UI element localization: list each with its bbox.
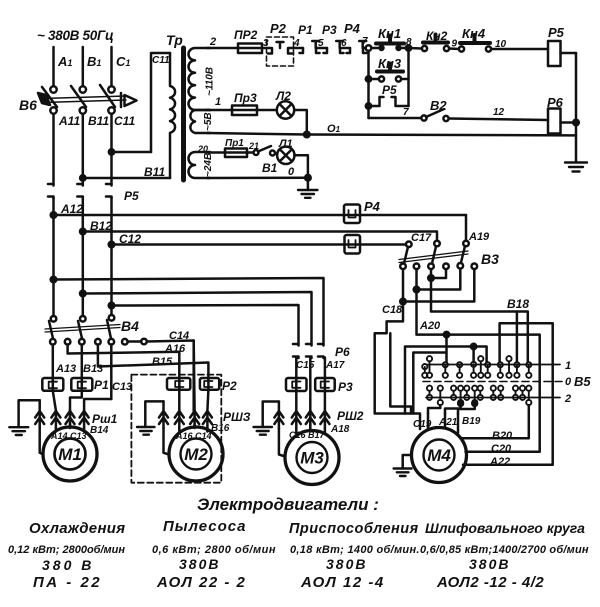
fuse Pr1 [225, 149, 247, 158]
plug connector RSh3 [159, 401, 212, 428]
svg-text:Электродвигатели :: Электродвигатели : [197, 495, 379, 514]
wire C11 to C12 [110, 198, 113, 316]
svg-text:Рш1: Рш1 [92, 412, 118, 426]
svg-text:Р3: Р3 [338, 380, 353, 394]
wire M3 phases to plug [296, 391, 325, 411]
ground M1 [19, 400, 40, 427]
motor M1 [43, 427, 97, 481]
switch B6 blade 3 [100, 85, 115, 107]
svg-text:В3: В3 [481, 251, 499, 267]
node A11 [50, 107, 56, 113]
ground right [565, 163, 587, 172]
wire plug to motor M3 [279, 428, 285, 457]
push button Kn2 [422, 46, 427, 51]
svg-text:АОЛ 22 - 2: АОЛ 22 - 2 [156, 574, 246, 591]
ground M3 [263, 402, 279, 428]
node C1 [110, 47, 113, 86]
wire M1 phase A to plug [53, 391, 56, 411]
transformer Tr secondary 24V winding [189, 152, 210, 178]
plug connector RSh2 [274, 402, 329, 429]
node C on second bus [109, 303, 115, 309]
svg-text:380В: 380В [326, 556, 367, 572]
relay coil P5 [548, 41, 561, 66]
svg-text:Р5: Р5 [382, 83, 397, 97]
bus A12 [54, 214, 467, 217]
wire C14 [128, 341, 194, 412]
svg-text:4: 4 [293, 38, 300, 49]
wire lamp L2 to O1 [294, 110, 307, 135]
svg-text:1: 1 [215, 96, 221, 108]
node 8 [406, 45, 411, 50]
wire M1 phase C to plug [84, 399, 111, 411]
switch B4 blades [49, 321, 53, 339]
contactor P3 contact B [315, 378, 335, 391]
svg-text:12: 12 [493, 107, 505, 118]
svg-text:Кн2: Кн2 [426, 29, 448, 43]
svg-text:Кн3: Кн3 [378, 56, 402, 71]
contactor P5 main contact A [48, 184, 54, 198]
wire M4 B20 [462, 405, 529, 438]
svg-text:С14: С14 [169, 330, 189, 342]
bus C feed [112, 305, 299, 344]
wire A13 down [52, 345, 55, 378]
motor M3 [285, 431, 339, 485]
push button Kn1 [380, 46, 384, 50]
svg-text:Р1: Р1 [94, 378, 109, 392]
svg-text:Охлаждения: Охлаждения [29, 520, 125, 537]
svg-text:В1: В1 [262, 161, 278, 175]
wire lamp L1 to 0 [295, 155, 308, 177]
svg-text:А18: А18 [330, 424, 350, 435]
svg-text:Р5: Р5 [124, 189, 139, 203]
branch Kn3 [367, 51, 370, 118]
svg-text:М2: М2 [184, 445, 208, 464]
relay self-hold contact P5 [366, 103, 371, 108]
svg-text:В19: В19 [462, 416, 481, 427]
svg-text:А14 С13: А14 С13 [50, 431, 87, 441]
wire feeder x390 [390, 333, 411, 413]
fuse Pr3 [232, 106, 257, 116]
svg-text:7: 7 [362, 36, 368, 47]
lamp L1 [277, 147, 294, 164]
svg-text:0,6 кВт; 2800 об/мин: 0,6 кВт; 2800 об/мин [152, 544, 276, 556]
switch B4 top contacts [51, 316, 57, 322]
M2 dashed enclosure [131, 375, 221, 483]
svg-text:Кн1: Кн1 [378, 26, 401, 41]
svg-text:380 В: 380 В [42, 557, 94, 573]
wire 7 to B2 [369, 117, 422, 120]
wire A16 [68, 345, 180, 379]
svg-text:Приспособления: Приспособления [289, 521, 419, 537]
wires into motor M4 [428, 414, 458, 435]
node C12 [109, 242, 115, 248]
svg-text:А16 С14: А16 С14 [175, 431, 212, 441]
wire A12 to A19 [465, 215, 468, 240]
svg-text:С12: С12 [119, 232, 141, 246]
wire to ground 0 [307, 178, 310, 190]
svg-text:С11: С11 [114, 114, 135, 128]
svg-text:В15: В15 [152, 356, 173, 368]
svg-text:Р6: Р6 [547, 95, 564, 110]
transformer Tr primary lead [151, 53, 170, 152]
svg-text:ПА - 22: ПА - 22 [33, 574, 102, 591]
node C17 [406, 242, 412, 248]
fuse PR2 [238, 44, 262, 54]
svg-text:С19: С19 [413, 419, 432, 430]
svg-text:380В: 380В [469, 556, 510, 572]
svg-text:В14: В14 [90, 425, 109, 436]
wire B11 to B12 [82, 198, 85, 317]
wire M4 C20 [466, 448, 540, 452]
wire tap1 [207, 109, 232, 112]
svg-text:АОЛ 12 -4: АОЛ 12 -4 [300, 574, 385, 591]
wire plug to motor M2 [164, 428, 170, 455]
wire A11 to A12 [52, 198, 55, 317]
wire B18 [431, 278, 528, 362]
svg-text:10: 10 [495, 39, 507, 50]
svg-text:Кн4: Кн4 [462, 26, 486, 41]
node A19 [463, 241, 469, 247]
wire lower bridge bus [428, 405, 440, 413]
svg-text:Р1: Р1 [298, 23, 313, 37]
svg-text:В6: В6 [19, 97, 37, 113]
ground M2 [145, 401, 163, 427]
svg-text:В20: В20 [492, 430, 513, 442]
wire U link 3-4 [431, 269, 446, 278]
svg-text:В5: В5 [574, 374, 591, 389]
wire U link 1-6 [403, 269, 474, 301]
wire M1 phase B to plug [70, 391, 82, 411]
wire P5 to ground [575, 53, 578, 162]
contactor P6 contact B [306, 344, 312, 358]
svg-text:В12: В12 [90, 219, 112, 233]
svg-text:20: 20 [197, 144, 208, 154]
svg-text:~ 380В 50Гц: ~ 380В 50Гц [37, 28, 114, 43]
svg-text:С20: С20 [491, 443, 512, 455]
relay contact P4 [347, 41, 367, 53]
bus B12 [83, 232, 437, 241]
wire U link 2-5 [417, 269, 461, 290]
contactor P3 contact A [286, 378, 307, 391]
wire M2 phases to plug [179, 390, 208, 411]
node 7 [366, 45, 372, 51]
push button Kn4 [459, 46, 464, 51]
contactor P6 contact C [318, 344, 324, 358]
wire 0 line [207, 176, 308, 179]
switch B6 blade 1 [42, 87, 57, 107]
svg-text:Р4: Р4 [344, 21, 361, 36]
svg-text:С16 В17: С16 В17 [289, 430, 326, 440]
svg-text:РШЗ: РШЗ [223, 410, 251, 424]
switch B5 line 1 [428, 364, 560, 366]
svg-text:~110В: ~110В [205, 67, 216, 96]
svg-text:Р3: Р3 [322, 23, 337, 37]
contactor P2 contact B [207, 379, 210, 392]
svg-text:С11: С11 [152, 55, 170, 66]
svg-text:В2: В2 [430, 98, 447, 113]
svg-text:1: 1 [565, 360, 571, 372]
svg-text:7: 7 [403, 107, 409, 118]
switch B1 [254, 150, 259, 155]
svg-text:Л2: Л2 [275, 89, 291, 103]
contactor P1 contact B [81, 377, 84, 391]
svg-text:В11: В11 [144, 165, 165, 179]
wire B13 down [81, 345, 84, 378]
wires P6 to P3 [295, 358, 298, 392]
contactor P6 contact A [293, 344, 299, 358]
svg-text:М3: М3 [300, 449, 324, 468]
wire C18 staircase [375, 302, 420, 430]
wire bridge feed x417 [413, 353, 445, 414]
bus A20 feed [54, 278, 324, 344]
ground 0 [298, 190, 318, 198]
wire C11 to transformer primary [112, 151, 152, 154]
svg-text:~5В: ~5В [203, 112, 214, 131]
ground M4 [403, 455, 412, 468]
svg-text:А19: А19 [468, 231, 490, 243]
motor M4 [412, 428, 467, 483]
svg-text:Пылесоса: Пылесоса [163, 518, 246, 535]
switch B6 actuator arrow [121, 93, 137, 107]
switch B3 bottom contacts row [400, 264, 406, 270]
bus B feed [83, 292, 312, 344]
svg-text:А20: А20 [419, 320, 441, 332]
svg-text:М1: М1 [58, 445, 82, 464]
svg-text:А13: А13 [55, 363, 76, 375]
svg-text:О1: О1 [327, 123, 341, 135]
transformer Tr primary winding [170, 53, 175, 178]
switch B6 blade 2 [71, 86, 86, 107]
svg-text:Р2: Р2 [222, 379, 237, 393]
svg-text:2: 2 [209, 36, 216, 48]
svg-text:В4: В4 [121, 318, 139, 334]
svg-text:8: 8 [406, 37, 412, 48]
wire B11 to transformer primary bottom [83, 177, 170, 180]
node B12 top contact [434, 241, 440, 247]
svg-text:А21: А21 [438, 417, 458, 428]
svg-text:~24В: ~24В [203, 153, 214, 177]
wire A20 [417, 290, 540, 449]
wire B15 [98, 345, 208, 379]
bus C12 [112, 243, 406, 246]
relay coil P6 [548, 109, 561, 134]
switch B5 line 0 [423, 381, 563, 383]
svg-text:А17: А17 [325, 360, 345, 371]
svg-text:С15: С15 [296, 360, 315, 371]
switch B4 bottom contacts row [50, 339, 56, 345]
svg-text:А16: А16 [164, 343, 186, 355]
svg-text:380В: 380В [179, 556, 220, 572]
svg-text:С18: С18 [382, 304, 403, 316]
svg-text:Р5: Р5 [548, 25, 565, 40]
switch B2 [421, 115, 426, 120]
relay contact P2 in dashed box [267, 37, 294, 66]
node A12 [51, 212, 57, 218]
lamp L2 [277, 101, 294, 118]
wire tap2 [207, 47, 238, 50]
transformer Tr secondary 5V winding [190, 110, 210, 133]
svg-text:3: 3 [263, 38, 269, 49]
switch B6 coupling bar [42, 96, 126, 103]
node B11 [80, 107, 86, 113]
contactor P5 main contact C [106, 184, 112, 198]
plug connector RSh1 [35, 400, 88, 428]
svg-text:С13: С13 [112, 381, 132, 393]
switch B3 blades [404, 247, 408, 264]
svg-text:Р6: Р6 [335, 345, 350, 359]
svg-text:В18: В18 [507, 297, 529, 311]
wire bridge feed x500 [500, 323, 553, 461]
svg-text:Тр: Тр [166, 32, 183, 48]
transformer Tr secondary 110V winding [189, 48, 211, 110]
svg-text:А11: А11 [58, 114, 80, 128]
node B12 [80, 229, 86, 235]
svg-text:С17: С17 [411, 232, 432, 244]
svg-text:9: 9 [452, 39, 458, 50]
svg-text:А22: А22 [489, 456, 510, 468]
wire node 4 [293, 47, 303, 50]
svg-text:Р2: Р2 [270, 21, 287, 36]
svg-text:0,6/0,85 кВт;1400/2700 об/мин: 0,6/0,85 кВт;1400/2700 об/мин [420, 544, 589, 556]
motor M2 [169, 427, 223, 481]
svg-text:В13: В13 [83, 363, 103, 375]
switch B4 coupling bar [45, 325, 120, 333]
switch B5 line 2 [426, 397, 560, 399]
svg-text:А12: А12 [60, 202, 83, 216]
svg-text:0,18 кВт; 1400 об/мин.: 0,18 кВт; 1400 об/мин. [290, 544, 420, 556]
node C14 terminal [141, 339, 147, 345]
svg-text:Р4: Р4 [364, 199, 381, 214]
node C11 [108, 107, 114, 113]
svg-text:Пр1: Пр1 [225, 138, 244, 149]
svg-text:0,12 кВт; 2800об/мин: 0,12 кВт; 2800об/мин [8, 544, 125, 556]
svg-text:М4: М4 [427, 446, 451, 465]
svg-text:6: 6 [341, 38, 347, 49]
transformer Tr core [181, 48, 186, 180]
wire C13 down [110, 345, 113, 400]
wire bridge feed x473 [405, 347, 487, 414]
svg-text:ПР2: ПР2 [234, 28, 258, 42]
svg-text:5: 5 [318, 38, 324, 49]
svg-text:Шлифовального круга: Шлифовального круга [425, 520, 585, 536]
switch B5 upper bridges [422, 356, 531, 378]
svg-text:АОЛ2 -12 - 4/2: АОЛ2 -12 - 4/2 [436, 574, 544, 591]
svg-text:0: 0 [288, 166, 295, 178]
svg-text:В16: В16 [211, 423, 230, 434]
wire tap20 [207, 151, 225, 154]
svg-text:Пр3: Пр3 [234, 91, 257, 105]
node B on second bus [80, 291, 86, 297]
node A1 [52, 47, 55, 86]
svg-text:21: 21 [248, 141, 259, 151]
contactor P1 contact A [52, 377, 55, 391]
svg-text:0: 0 [565, 376, 572, 388]
plug contact P4 lower [345, 235, 361, 254]
contactor P5 main contact B [77, 184, 83, 198]
plug contact P4 upper [344, 205, 360, 224]
switch B6 handle [38, 93, 50, 105]
relay contact P3 [324, 41, 344, 53]
node B1 [82, 47, 85, 86]
svg-text:2: 2 [564, 393, 571, 405]
svg-text:В11: В11 [88, 114, 109, 128]
switch B5 lower bridges [427, 386, 532, 406]
node A on second bus [51, 277, 57, 283]
node O1 junction [304, 132, 310, 138]
svg-text:Л1: Л1 [278, 138, 293, 150]
switch B3 coupling bar [399, 251, 468, 263]
svg-text:РШ2: РШ2 [337, 409, 364, 423]
wire M4 A22 [463, 461, 553, 465]
contactor P2 contact A [178, 379, 181, 392]
relay contact P1 [300, 41, 320, 53]
wire plug to motor M1 [40, 428, 44, 455]
wire O1 line [207, 133, 576, 135]
